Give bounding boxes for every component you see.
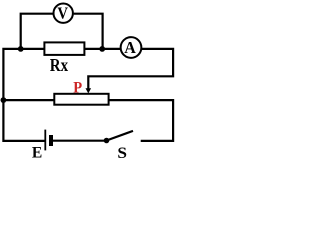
rheostat P box <box>54 94 108 105</box>
node junction on left rail <box>1 97 7 103</box>
svg-text:E: E <box>32 145 42 162</box>
wire rheostat to switch (right rail lower) <box>109 100 174 141</box>
wiper arrow of rheostat <box>86 88 92 93</box>
wire battery to switch <box>53 140 107 142</box>
battery E <box>45 130 53 151</box>
wire ammeter to rheostat wiper (right rail upper) <box>88 49 173 89</box>
node junction right of Rx <box>99 46 105 52</box>
ammeter A <box>121 37 142 58</box>
svg-text:S: S <box>117 143 127 162</box>
wire voltmeter left branch <box>21 14 53 49</box>
resistor Rx <box>44 42 84 55</box>
wire left rail to rheostat <box>3 99 54 101</box>
wire voltmeter right branch <box>74 14 103 49</box>
wire left rail (top corner, down, bottom corner to battery) <box>3 49 45 141</box>
svg-text:A: A <box>124 38 136 57</box>
node junction left of Rx <box>18 46 24 52</box>
wire Rx box to ammeter <box>84 48 120 50</box>
voltmeter V <box>54 4 73 23</box>
switch S <box>104 131 133 143</box>
svg-text:Rx: Rx <box>50 55 68 75</box>
svg-text:V: V <box>57 4 68 23</box>
